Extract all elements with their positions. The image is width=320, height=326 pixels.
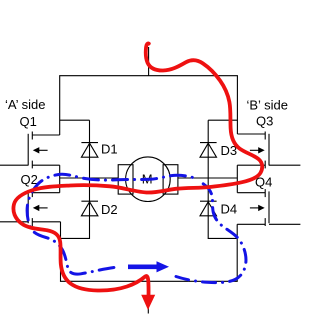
wire D3 branch	[208, 119, 237, 121]
svg-text:D1: D1	[101, 142, 118, 157]
diode D3	[200, 143, 217, 158]
wire right diode chain	[208, 120, 237, 238]
wire left diode chain	[61, 120, 90, 238]
blue loop continuation after arrow	[176, 181, 246, 283]
svg-text:Q2: Q2	[21, 172, 38, 187]
node A vertical (Q1 source / Q2 drain)	[59, 165, 61, 193]
svg-text:D4: D4	[221, 202, 238, 217]
svg-text:‘A’ side: ‘A’ side	[5, 97, 45, 112]
diode D2	[81, 201, 98, 216]
transistor Q3	[237, 132, 300, 169]
diode D1	[81, 143, 98, 158]
red current path ('A' drive loop)	[13, 43, 262, 296]
svg-text:Q3: Q3	[256, 113, 273, 128]
wire top rail with left and right verticals	[60, 76, 238, 135]
transistor Q4	[237, 189, 300, 226]
wire motor left	[60, 177, 118, 179]
blue arrow (solid)	[128, 264, 157, 269]
wire D1 branch	[60, 119, 90, 121]
red arrowhead bottom	[141, 295, 155, 310]
svg-text:Q1: Q1	[20, 114, 37, 129]
motor M	[118, 157, 178, 202]
wire bottom rail with verticals	[61, 222, 238, 281]
svg-text:D2: D2	[101, 202, 118, 217]
svg-text:‘B’ side: ‘B’ side	[247, 98, 288, 113]
blue freewheel loop (dash-dot)	[27, 174, 196, 274]
transistor Q2	[0, 189, 61, 226]
transistor Q1	[0, 132, 60, 169]
wire motor right	[178, 177, 237, 179]
supply stub top	[148, 47, 150, 76]
diode D4	[200, 201, 217, 216]
node B vertical (Q3 source / Q4 drain)	[236, 165, 238, 193]
supply stub bottom	[147, 281, 149, 313]
